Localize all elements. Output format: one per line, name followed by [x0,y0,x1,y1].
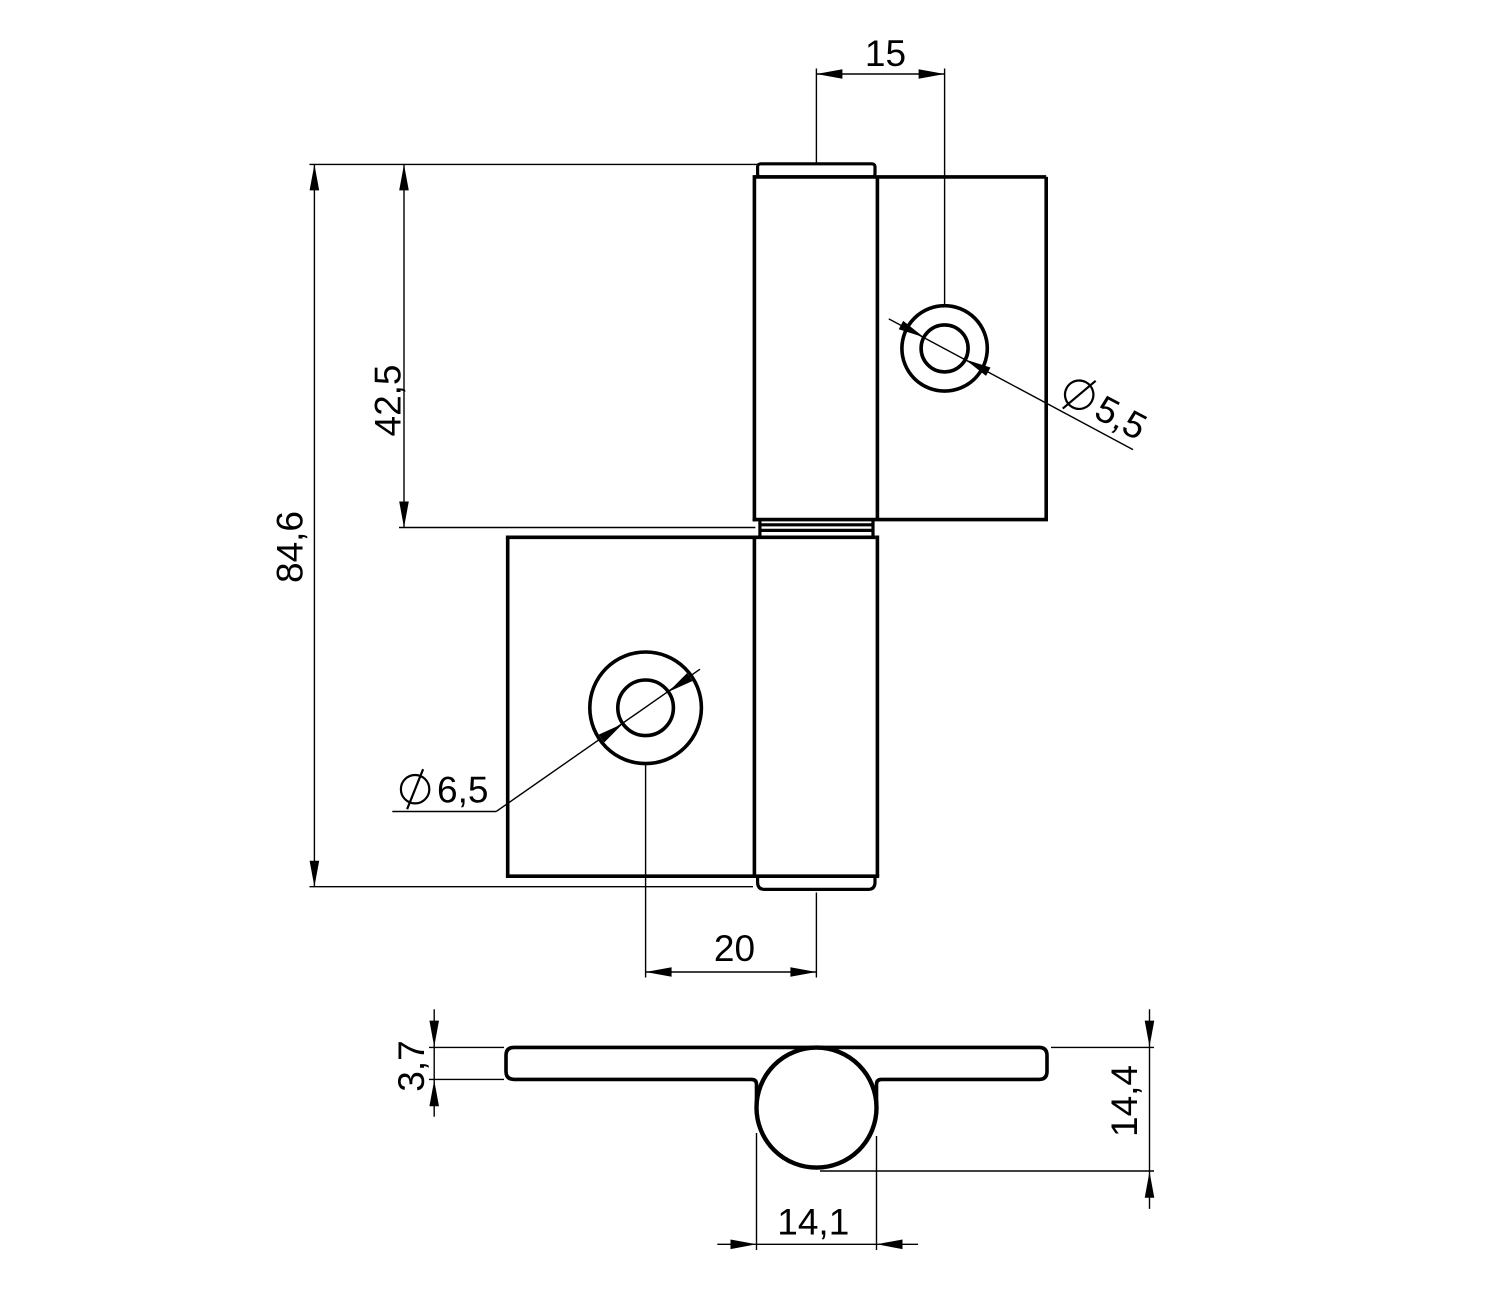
svg-text:84,6: 84,6 [270,511,311,583]
hinge pin bottom cap [758,876,875,889]
dimension 14,4 (total barrel height) [820,1009,1154,1209]
bottom section view: leaf plates [506,1047,1047,1102]
svg-text:14,1: 14,1 [777,1201,849,1242]
svg-text:42,5: 42,5 [368,364,409,436]
dimension 14,1 (pin diameter) [717,1133,918,1250]
hole in left leaf (d6.5 with d13 boss) [590,652,702,764]
diameter label 6,5 with leader [392,669,700,811]
upper part (right leaf + upper knuckle) outline [753,175,1048,521]
svg-text:20: 20 [714,928,755,969]
dimension 3,7 (plate thickness) [391,1009,504,1116]
hinge pin top cap [758,164,875,177]
dimension 84,6 (total height) [270,164,753,886]
bottom view: pin barrel circle [757,1048,877,1168]
svg-text:14,4: 14,4 [1104,1065,1145,1137]
svg-text:6,5: 6,5 [437,769,488,810]
dimension 20 (hole center to pin axis) [646,765,817,978]
dimension 42,5 (top to middle) [310,164,758,527]
svg-text:3,7: 3,7 [391,1040,432,1091]
dimension 15 (pin axis to hole center) [816,33,944,305]
pin visible between knuckles (junction detail) [760,520,873,538]
svg-text:15: 15 [865,33,906,74]
diameter label 5,5 with leader [889,319,1154,450]
hole in right leaf (d5.5 with d10 boss) [902,306,987,391]
lower part (left leaf + lower knuckle) outline [506,536,879,877]
